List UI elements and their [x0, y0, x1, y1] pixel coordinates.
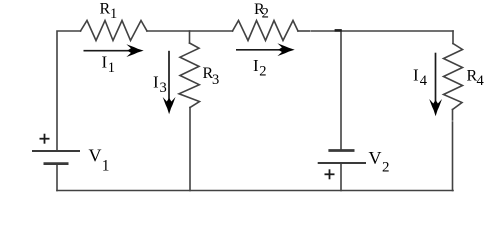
- plus sign V2: [325, 169, 335, 179]
- wire bottom: [57, 190, 453, 192]
- plus sign V1: [40, 134, 50, 144]
- wire V2 branch top: [340, 31, 342, 150]
- junction knot at V2 branch top: [335, 29, 342, 32]
- wire V1 branch bottom: [56, 165, 58, 191]
- svg-text:V1: V1: [89, 146, 110, 175]
- resistor R4: [444, 44, 463, 110]
- wire R4 branch top: [452, 31, 454, 44]
- svg-text:I3: I3: [153, 73, 167, 97]
- resistor R1: [81, 21, 148, 41]
- svg-text:R2: R2: [254, 1, 269, 22]
- svg-text:R3: R3: [203, 65, 220, 88]
- wire R4 branch bottom lower: [452, 122, 454, 191]
- current arrow I2: [236, 43, 295, 56]
- svg-text:I1: I1: [102, 53, 116, 77]
- current arrow I1: [84, 44, 144, 57]
- resistor R3: [179, 43, 200, 108]
- wire top far-right segment: [311, 30, 453, 32]
- current arrow I3: [163, 51, 176, 115]
- wire top-left segment: [57, 31, 81, 150]
- battery V1 plate short: [44, 162, 69, 165]
- svg-text:R4: R4: [467, 68, 485, 90]
- wire R3 branch bottom: [189, 108, 191, 191]
- wire R4 branch bottom upper: [452, 110, 454, 121]
- svg-text:I4: I4: [413, 66, 428, 90]
- svg-text:I2: I2: [253, 56, 267, 80]
- resistor R2: [233, 21, 299, 41]
- wire top middle segment: [147, 30, 233, 32]
- svg-text:V2: V2: [369, 148, 390, 175]
- battery V1 plate long: [32, 150, 80, 152]
- battery V2 plate short: [328, 149, 354, 152]
- wire V2 branch bottom: [340, 163, 342, 191]
- svg-text:R1: R1: [100, 1, 118, 22]
- battery V2 plate long: [318, 162, 366, 164]
- wire R3 branch top: [189, 31, 191, 43]
- wire top right segment: [298, 30, 309, 32]
- current arrow I4: [429, 53, 442, 117]
